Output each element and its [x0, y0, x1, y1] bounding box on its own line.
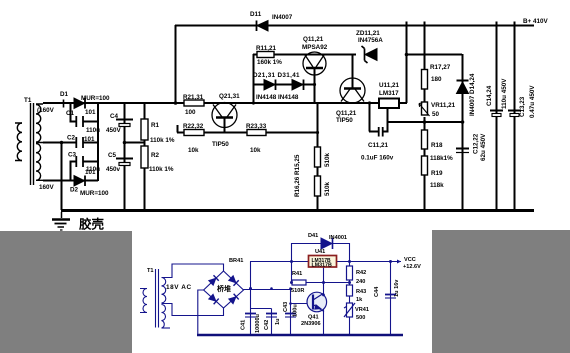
wire D41 bypass top	[291, 243, 349, 245]
svg-text:510k: 510k	[324, 152, 331, 167]
svg-text:R41: R41	[292, 271, 302, 277]
svg-text:C5: C5	[108, 152, 117, 159]
wire C12 column	[462, 122, 464, 210]
wire center tap to ground	[61, 142, 63, 210]
svg-text:MPSA92: MPSA92	[302, 44, 328, 51]
svg-text:2N3906: 2N3906	[301, 321, 321, 327]
bridge diamond	[204, 271, 244, 308]
wire secondary bottom stub	[162, 327, 171, 329]
svg-text:1u: 1u	[275, 318, 281, 325]
capacitor C13 electrolytic	[508, 111, 521, 117]
capacitor C2	[76, 137, 83, 148]
svg-text:D21,31 D31,41: D21,31 D31,41	[253, 72, 300, 79]
wire bridge minus to bus	[198, 290, 204, 335]
svg-text:0.47u 450V: 0.47u 450V	[529, 85, 536, 118]
wire C2 right to column	[83, 142, 98, 144]
svg-text:C42: C42	[264, 320, 270, 330]
svg-text:D41: D41	[308, 233, 318, 239]
svg-text:D2: D2	[70, 187, 79, 194]
wire main B+ rail	[43, 102, 379, 104]
svg-text:IN4001: IN4001	[329, 235, 347, 241]
wire R11 branch vertical	[253, 54, 255, 103]
diode D31	[292, 80, 304, 91]
svg-text:160V: 160V	[39, 184, 55, 191]
label VCC red	[403, 257, 421, 270]
wire D41 bypass right	[349, 243, 351, 262]
svg-text:IN4148 IN4148: IN4148 IN4148	[256, 94, 299, 101]
wire bridge plus row	[244, 289, 292, 291]
regulator U11 LM317	[379, 99, 399, 109]
svg-text:118k1%: 118k1%	[430, 155, 453, 162]
wire C41-C42 link	[251, 308, 272, 310]
svg-text:TIP50: TIP50	[212, 141, 229, 148]
wire VCC rail	[250, 261, 401, 263]
svg-text:0.1uF 160v: 0.1uF 160v	[361, 155, 394, 162]
diode D2	[74, 176, 85, 187]
wire Q21 emitter drop	[224, 118, 226, 132]
svg-text:1k: 1k	[356, 297, 363, 303]
resistor R43	[347, 285, 353, 296]
transistor Q21 TIP50	[212, 103, 237, 128]
svg-text:110k 1%: 110k 1%	[149, 166, 174, 173]
svg-text:C13,23: C13,23	[519, 96, 526, 117]
resistor R2	[141, 146, 148, 168]
svg-text:TIP50: TIP50	[336, 117, 353, 124]
wire top feedback line	[175, 25, 534, 27]
bridge diode bottom-left	[208, 294, 218, 304]
wire D41 bypass left	[291, 243, 293, 283]
zener ZD11	[362, 46, 378, 63]
wire C14 column	[496, 25, 498, 210]
svg-text:500: 500	[356, 315, 365, 321]
svg-text:R22,32: R22,32	[183, 123, 204, 130]
wire C41 column	[250, 289, 252, 335]
diode D14	[457, 81, 469, 94]
wire plus riser	[250, 262, 252, 290]
capacitor C5 electrolytic	[116, 159, 133, 166]
wire C13 column	[514, 25, 516, 210]
svg-text:C41: C41	[241, 320, 247, 330]
svg-text:R21,31: R21,31	[183, 94, 204, 101]
svg-text:胶壳: 胶壳	[79, 217, 105, 232]
svg-text:Q11,21: Q11,21	[303, 36, 324, 43]
diode D11	[257, 21, 269, 32]
transformer T1 bottom	[140, 289, 147, 313]
svg-text:R43: R43	[356, 289, 366, 295]
svg-text:50: 50	[432, 111, 440, 118]
svg-text:VR41: VR41	[355, 307, 369, 313]
wire C42 column	[271, 309, 273, 336]
wire left feedback vertical	[175, 25, 177, 103]
svg-text:R2: R2	[151, 152, 160, 159]
svg-text:D11: D11	[250, 11, 262, 18]
svg-text:T1: T1	[147, 268, 154, 274]
wire R17 to pot	[424, 89, 426, 102]
wire C1 right	[83, 121, 98, 123]
svg-text:10k: 10k	[188, 147, 199, 154]
wire C11 right to ADJ	[383, 122, 388, 132]
svg-text:MUR=100: MUR=100	[80, 190, 109, 197]
svg-text:101: 101	[85, 109, 96, 116]
junction dots bottom	[249, 260, 392, 305]
capacitor C3	[76, 156, 83, 167]
svg-text:LM317B: LM317B	[312, 263, 332, 269]
svg-text:160k 1%: 160k 1%	[257, 59, 282, 66]
svg-text:Q41: Q41	[308, 315, 319, 321]
svg-text:62u 450V: 62u 450V	[480, 133, 487, 161]
wire C44 column	[390, 262, 392, 336]
resistor R21	[184, 100, 204, 106]
svg-text:110u: 110u	[86, 127, 100, 134]
svg-text:101: 101	[84, 136, 95, 143]
wire U11 output to node	[399, 102, 407, 104]
wire U41 ADJ drop and down to bus	[323, 267, 325, 335]
svg-text:(160V: (160V	[37, 107, 55, 114]
svg-text:118k: 118k	[430, 182, 444, 189]
transistor Q41 2N3906	[307, 292, 327, 312]
VCC arrow	[397, 260, 401, 264]
svg-text:Q11,21: Q11,21	[336, 110, 357, 117]
svg-text:110k 1%: 110k 1%	[150, 137, 175, 144]
wire R42 column	[349, 262, 351, 283]
transistor Q11 MPSA92	[303, 52, 326, 75]
svg-text:240: 240	[356, 279, 365, 285]
transformer T1	[15, 103, 43, 185]
wire Q11 collector stub	[352, 55, 354, 89]
svg-text:100: 100	[185, 109, 196, 116]
wire R43 VR41 column	[349, 283, 351, 336]
svg-text:18V AC: 18V AC	[166, 284, 192, 291]
svg-text:C11,21: C11,21	[368, 142, 388, 149]
wire secondary tap to bridge	[162, 304, 224, 316]
svg-text:U41: U41	[315, 249, 325, 255]
svg-text:R19: R19	[431, 170, 443, 177]
resistor R19	[422, 156, 428, 175]
resistor R22	[184, 130, 204, 136]
svg-text:R16,26 R15,25: R16,26 R15,25	[294, 154, 301, 197]
svg-text:ZD11,21: ZD11,21	[356, 30, 380, 37]
svg-text:R17,27: R17,27	[430, 64, 451, 71]
wire zener node vertical	[406, 25, 408, 103]
right gray panel	[432, 230, 570, 353]
svg-text:110u 450V: 110u 450V	[501, 78, 508, 109]
resistor R17	[422, 70, 428, 90]
svg-text:IN4007: IN4007	[272, 14, 293, 21]
resistor R16	[315, 176, 321, 196]
wire Q41 base	[290, 303, 307, 305]
diode D41	[321, 238, 333, 249]
wire R11 row	[253, 54, 356, 56]
wire R18 R19 column	[424, 122, 426, 210]
wire bleeder column	[144, 103, 146, 210]
svg-text:C44: C44	[374, 286, 380, 297]
wire divider column	[317, 103, 319, 210]
svg-text:MUR=100: MUR=100	[81, 95, 110, 102]
wire R17 column	[424, 25, 426, 70]
resistor R15	[315, 147, 321, 167]
left gray panel	[0, 231, 132, 353]
wire cap-bleeder midpoint link	[124, 142, 144, 144]
svg-text:R18: R18	[431, 142, 443, 149]
svg-text:IN4007 D14,24: IN4007 D14,24	[469, 73, 476, 116]
svg-text:桥堆: 桥堆	[217, 284, 231, 293]
capacitor C14 electrolytic	[490, 111, 503, 117]
svg-text:450V: 450V	[106, 127, 122, 134]
svg-text:Q21,31: Q21,31	[219, 93, 240, 100]
wire filter cap column	[124, 103, 126, 210]
wire center tap horizontal	[43, 142, 76, 144]
resistor R42	[347, 266, 353, 280]
wire MPSA92 collector drop	[314, 69, 316, 103]
wire C11 left vertical	[369, 103, 371, 132]
ground bus	[61, 209, 534, 212]
bridge diode top-left	[208, 275, 218, 285]
diode D1	[74, 98, 85, 109]
svg-text:+12.6V: +12.6V	[403, 264, 421, 270]
bridge diode top-right	[228, 275, 238, 285]
wire secondary top to bridge	[162, 264, 224, 278]
regulator U41 LM317B box	[309, 256, 337, 268]
svg-text:10k: 10k	[250, 147, 261, 154]
wire D14 column	[462, 54, 464, 123]
svg-text:100u: 100u	[293, 304, 299, 317]
svg-text:VR11,21: VR11,21	[431, 102, 456, 109]
svg-text:450v: 450v	[106, 166, 121, 173]
transistor Q11 TIP50	[340, 78, 365, 103]
svg-text:C14,24: C14,24	[486, 85, 493, 106]
capacitor C44	[385, 295, 396, 299]
wire bottom rectifier line	[43, 180, 98, 182]
svg-text:C4: C4	[110, 113, 119, 120]
svg-text:C1: C1	[66, 110, 75, 117]
wire C3 right	[83, 161, 98, 163]
svg-text:LM317: LM317	[379, 90, 399, 97]
diode D21	[264, 80, 276, 91]
svg-text:B+ 410V: B+ 410V	[523, 18, 548, 25]
capacitor C12 electrolytic	[456, 149, 469, 153]
wire pot to ADJ	[424, 117, 426, 123]
svg-text:R11,21: R11,21	[256, 45, 276, 52]
wire diode string row	[253, 84, 315, 86]
wire Q21 base lead stub	[177, 125, 179, 133]
wire C11 left stub	[369, 131, 378, 133]
resistor R11	[257, 52, 274, 58]
resistor R18	[422, 130, 428, 149]
svg-text:10000u: 10000u	[255, 313, 261, 333]
wire U11 ADJ drop	[387, 107, 389, 123]
wire C3 left stub	[71, 162, 77, 181]
svg-text:U11,21: U11,21	[379, 82, 399, 89]
svg-text:BR41: BR41	[229, 258, 243, 264]
svg-text:R42: R42	[356, 270, 366, 276]
wire ADJ row	[387, 121, 462, 123]
wire snubber right column	[97, 103, 99, 181]
bridge diode bottom-right	[228, 294, 238, 304]
svg-text:T1: T1	[24, 97, 32, 104]
capacitor C43	[285, 314, 296, 318]
svg-text:1u 16v: 1u 16v	[394, 279, 400, 297]
capacitor C41	[245, 314, 256, 318]
resistor R41 510R	[292, 280, 306, 285]
capacitor C4 electrolytic	[116, 120, 133, 127]
svg-text:110u: 110u	[86, 166, 100, 173]
svg-text:VCC: VCC	[404, 257, 416, 263]
ground symbol	[52, 212, 70, 230]
pot VR11	[419, 102, 430, 116]
wire base row	[177, 132, 317, 134]
capacitor C42	[266, 314, 277, 318]
resistor R1	[141, 119, 148, 140]
resistor R23	[247, 130, 266, 136]
svg-text:C43: C43	[283, 302, 289, 312]
wire C43 column	[290, 290, 292, 336]
svg-text:C3: C3	[68, 152, 77, 159]
svg-text:R1: R1	[151, 122, 160, 129]
svg-text:R23,33: R23,33	[246, 123, 267, 130]
svg-text:IN4756A: IN4756A	[358, 37, 383, 44]
pot VR41	[344, 303, 355, 317]
svg-text:510R: 510R	[291, 288, 304, 294]
bottom ground bus	[197, 334, 403, 337]
svg-text:C12,22: C12,22	[473, 133, 480, 154]
svg-text:C2: C2	[67, 135, 76, 142]
wire junction tick	[63, 100, 65, 108]
wire C1 left stub	[71, 103, 77, 122]
svg-text:D1: D1	[60, 91, 69, 98]
capacitor C1	[76, 116, 83, 127]
capacitor C11	[379, 127, 383, 137]
wire ADJ row	[291, 282, 349, 284]
wire zener line to D14	[406, 54, 462, 56]
svg-text:510k: 510k	[324, 181, 331, 196]
svg-text:180: 180	[431, 76, 442, 83]
